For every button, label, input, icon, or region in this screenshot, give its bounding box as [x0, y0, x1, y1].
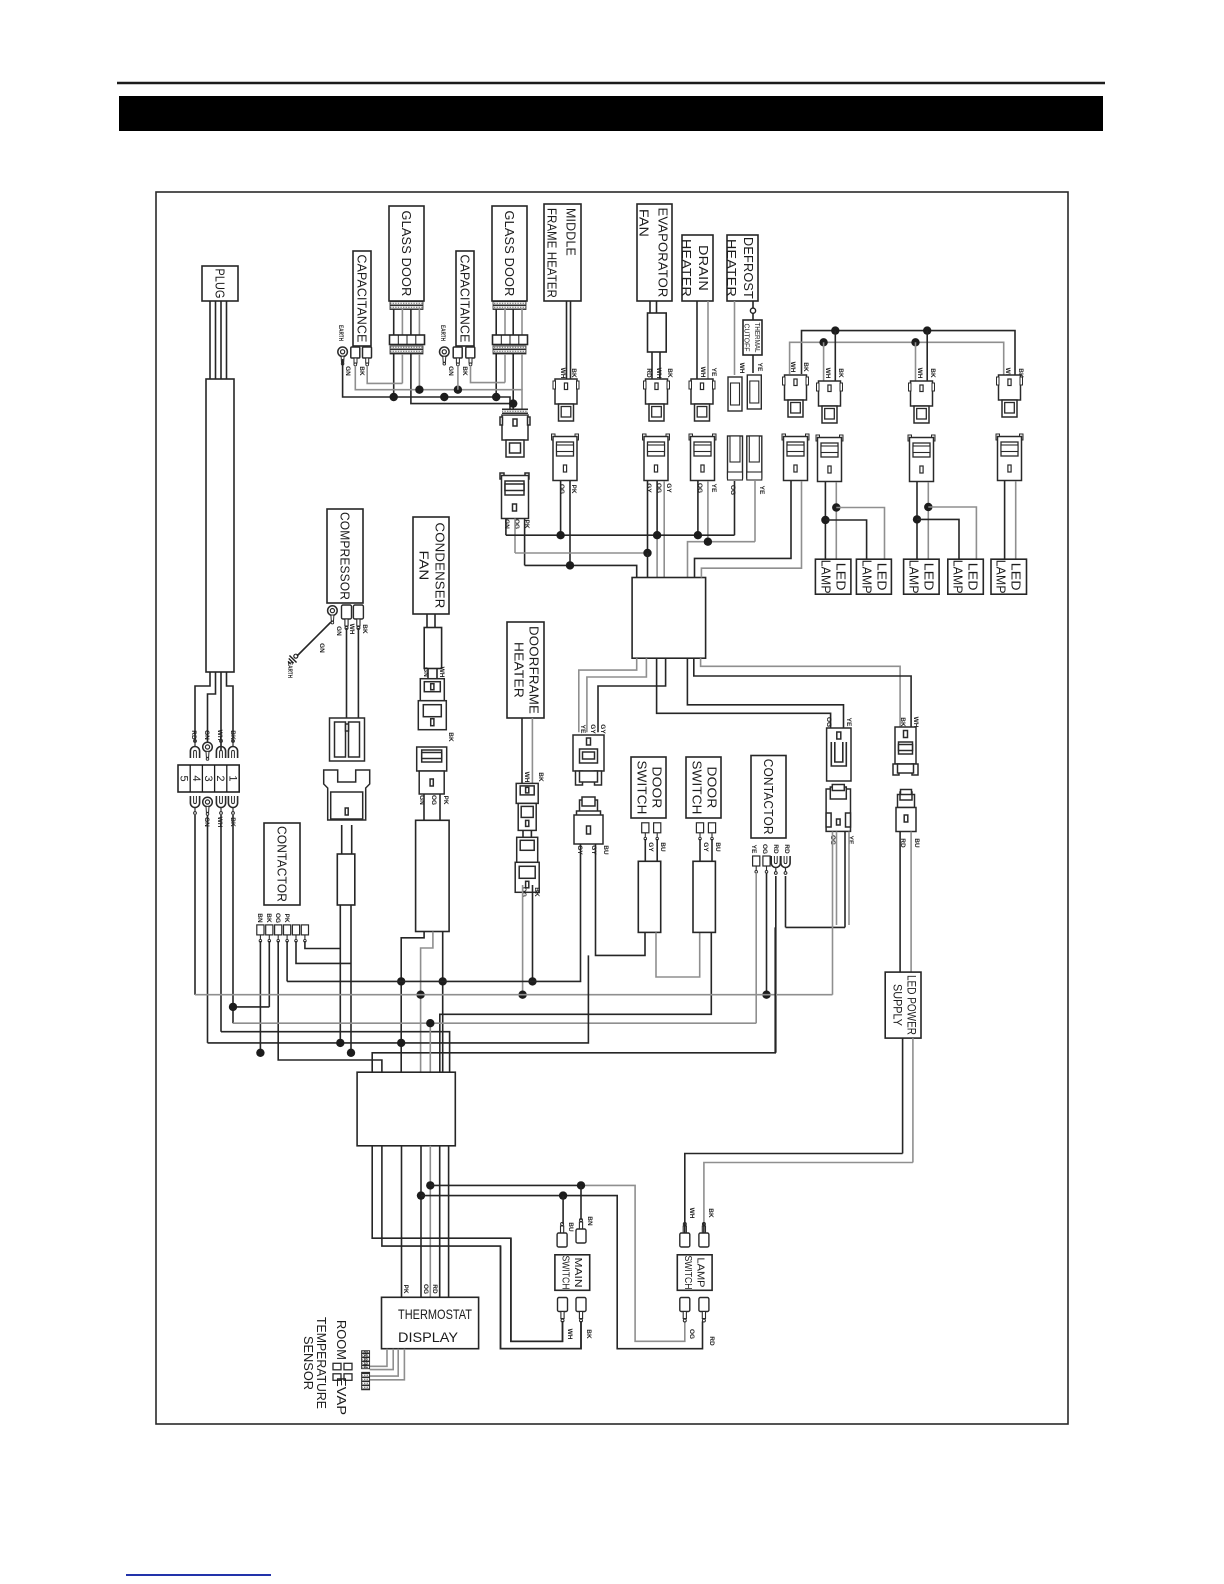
svg-text:1: 1 [226, 775, 238, 781]
sensor tag ROOM [361, 1351, 369, 1369]
connector defrost2 upper [747, 375, 761, 409]
glass door 2 terminal block [493, 335, 528, 345]
wire K2 branch to L2 left [825, 520, 866, 559]
wire mains column 4 [232, 815, 234, 1023]
junction dot c2 OG bus994 [762, 991, 770, 999]
svg-text:BK: BK [707, 1208, 714, 1218]
box LED LAMP 5 [991, 559, 1027, 594]
svg-text:YE: YE [847, 836, 854, 845]
svg-text:BU: BU [659, 842, 666, 852]
terminal strip 5 4 3 2 1 [178, 765, 240, 792]
wire pad6 to compressor w1 [305, 941, 340, 949]
wire mains column 3 [220, 815, 222, 1032]
wire bus y565 [525, 565, 637, 577]
svg-text:WH: WH [789, 362, 796, 373]
bottle terminal cap1 pin2 [363, 347, 372, 366]
wire y1185 to lamp og gray part [581, 1185, 685, 1341]
svg-text:YE: YE [579, 725, 586, 734]
junction dot mfh pk on bus565 [566, 561, 574, 569]
svg-text:GN: GN [335, 626, 342, 636]
wire evap pin2 lower [656, 535, 658, 577]
svg-text:BK: BK [802, 362, 809, 372]
svg-text:CONDENSER: CONDENSER [433, 523, 448, 609]
svg-text:LED POWER: LED POWER [905, 975, 917, 1035]
svg-text:CAPACITANCE: CAPACITANCE [458, 255, 473, 343]
wire box to contactorC bk [701, 658, 901, 727]
wire bus y553 [515, 552, 648, 554]
wire c2 pad YE drop to bus1023 [755, 873, 757, 1023]
svg-text:OG: OG [422, 1284, 429, 1294]
wire box to contactorA og [657, 658, 831, 728]
svg-text:HEATER: HEATER [724, 239, 739, 297]
junction dot mainsw bu [559, 1191, 567, 1199]
wire c2 pad OG drop to bus994 [766, 873, 768, 995]
connector condenser small pair [418, 679, 446, 730]
svg-text:GY: GY [576, 845, 583, 855]
bottle terminal main bottom right [576, 1298, 586, 1323]
svg-text:EVAP: EVAP [334, 1377, 349, 1415]
wire evap pin3 [663, 481, 665, 578]
wire mfh pin1 to bus535 [560, 481, 562, 535]
svg-text:GY: GY [645, 483, 652, 493]
svg-text:OG: OG [520, 887, 527, 897]
wire sensor room a [370, 1349, 387, 1367]
box THERMAL CUTOFF [743, 320, 763, 355]
connector K3 upper [909, 381, 935, 423]
wire contactorB tail horizontal [786, 926, 846, 928]
wire condenser out c [442, 932, 444, 1073]
wire sensor evap b [370, 1349, 405, 1380]
svg-text:OG: OG [696, 483, 703, 493]
wire y1185 to lamp og black part [430, 1184, 581, 1186]
junction dot doorframe bus994 [518, 991, 526, 999]
junction dot out c bus981 [439, 977, 447, 985]
wire bus y1023 [233, 1022, 756, 1024]
connector drain upper [689, 379, 715, 421]
svg-text:GY: GY [599, 724, 606, 734]
contactor1 pad 2 [266, 925, 273, 942]
evap cable ferrule [648, 313, 667, 352]
wire pad4 to bus981 [286, 941, 288, 981]
wire box2 out left b [382, 1146, 581, 1349]
wire bus y541 [688, 542, 756, 578]
svg-text:CAPACITANCE: CAPACITANCE [355, 255, 370, 343]
svg-text:4: 4 [190, 775, 202, 781]
junction dot cap2 pin1 [454, 386, 462, 394]
wire K2 branch to L2 right [836, 508, 884, 560]
svg-text:FRAME HEATER: FRAME HEATER [545, 208, 560, 298]
box DOOR SWITCH 1 [631, 757, 666, 818]
wire led supply down right [912, 1038, 914, 1162]
svg-text:WH: WH [566, 1329, 573, 1340]
wire led supply to lamp switch wh [685, 1154, 903, 1234]
wire glass1 w2 [401, 354, 403, 383]
svg-text:SWITCH: SWITCH [690, 761, 705, 815]
control junction box [632, 578, 706, 659]
wire K3 branch to L4 left [917, 519, 959, 559]
svg-text:PK: PK [283, 913, 290, 922]
fork terminal below strip 3 [228, 796, 237, 814]
svg-text:WH: WH [912, 717, 919, 728]
junction dot bus1006 [229, 1003, 237, 1011]
connector chain upper [573, 735, 604, 785]
wire cap2 pin1 drop [457, 366, 459, 390]
svg-text:LED: LED [1009, 563, 1024, 591]
junction dot glass2 w1 [492, 393, 500, 401]
wire K1 pin1 to box [695, 481, 792, 578]
wire condenser into body [424, 794, 440, 820]
wire lamp sw top stubs [685, 1222, 704, 1233]
wire evap leads [650, 301, 657, 313]
wire box to chain w3 [598, 658, 666, 732]
svg-text:GN: GN [203, 817, 210, 827]
svg-text:WH: WH [559, 368, 566, 379]
box CONTACTOR 2 [751, 756, 786, 839]
fork terminal below strip 1 [190, 796, 199, 814]
svg-text:BK: BK [899, 717, 906, 727]
wire box2 out left a [372, 1146, 562, 1342]
wire harness pin3 to bus565 [524, 519, 526, 566]
wire ds2 pins to body [700, 839, 712, 861]
wire plug leads [210, 301, 227, 379]
svg-text:BK: BK [837, 368, 844, 378]
wire ds2 out right to box2 [440, 932, 712, 1072]
black header banner [119, 96, 1103, 131]
svg-text:CUTOFF: CUTOFF [743, 324, 752, 352]
svg-text:ROOM: ROOM [334, 1320, 349, 1360]
condenser cable ferrule [424, 628, 441, 669]
bottle terminal lamp top left [680, 1223, 690, 1248]
box CONTACTOR 1 [264, 823, 300, 905]
door switch2 body [693, 861, 715, 932]
wire doorframe w1 to bus994 [522, 885, 524, 995]
bottle terminal main top left [557, 1223, 567, 1248]
ring terminal earth 1 [338, 347, 348, 365]
connector compressor upper [330, 718, 365, 761]
svg-text:GLASS DOOR: GLASS DOOR [399, 211, 414, 297]
svg-text:WH: WH [438, 667, 445, 678]
wire defrost lead left [734, 301, 736, 375]
svg-text:LED: LED [834, 563, 849, 591]
wire glass2 w1 [495, 354, 497, 397]
bottle terminal lamp bottom left [680, 1298, 690, 1323]
wire led bus black y330 [802, 331, 1016, 381]
svg-text:WH: WH [348, 624, 355, 635]
wire main bk return [501, 1246, 582, 1349]
wire drain leads [697, 301, 708, 379]
wire bus y981 [287, 980, 580, 982]
svg-text:PLUG: PLUG [213, 269, 228, 299]
junction dot evap on bus535 [653, 531, 661, 539]
wire K4 to L5 left [1004, 481, 1006, 559]
glass door 1 wires to block [394, 309, 420, 335]
connector defrost1 lower [728, 436, 743, 480]
wire K2 feeds [834, 331, 836, 381]
connector defrost1 upper [728, 377, 742, 411]
label hatch above harness connector [502, 409, 528, 415]
connector contactorD [896, 790, 916, 832]
junction dot glass2 w3 [509, 399, 517, 407]
junction dot drain on bus541 [704, 538, 712, 546]
contactor1 pad 4 [284, 925, 291, 942]
svg-text:CONTACTOR: CONTACTOR [761, 759, 776, 835]
svg-text:LED: LED [875, 563, 890, 591]
wire glass1 w3 [411, 354, 513, 404]
svg-text:RD: RD [190, 730, 197, 740]
svg-text:DRAIN: DRAIN [696, 245, 711, 291]
svg-text:YE: YE [750, 845, 757, 854]
svg-text:MIDDLE: MIDDLE [564, 208, 579, 256]
junction dot doorframe bus981 [528, 977, 536, 985]
wire bus y994 [195, 994, 833, 996]
svg-text:GN: GN [344, 366, 351, 376]
wire c2 fork RD2 drop [785, 876, 787, 927]
svg-text:BK: BK [533, 887, 540, 897]
wire chain pinR to ds1 [596, 844, 646, 955]
junction dot out a bus981 [397, 977, 405, 985]
door switch1 pin left [642, 823, 649, 840]
wire bus y535 [506, 534, 735, 536]
wire condenser leads [427, 614, 435, 628]
wire box to contactorA ye [687, 658, 843, 728]
wire K1 pin2 to box [701, 481, 801, 578]
connector K2 lower [816, 435, 843, 482]
connector doorframe lower [515, 837, 539, 892]
junction dot earth2 [440, 393, 448, 401]
junction dot evap gy on bus553 [643, 549, 651, 557]
connector K1 lower [782, 434, 809, 481]
connector contactorA receptacle [827, 728, 851, 781]
connector contactorC [893, 727, 918, 775]
contactor2 fork RD2 [781, 856, 790, 874]
contactor2 pad YE [753, 856, 760, 873]
svg-text:GN: GN [447, 366, 454, 376]
glass door 1 hatch row bottom [390, 346, 423, 354]
junction dot K2 on black bus [831, 326, 839, 334]
svg-text:HEATER: HEATER [679, 239, 694, 297]
junction dot K2 on gray bus [819, 338, 827, 346]
svg-text:SWITCH: SWITCH [560, 1256, 571, 1290]
wire black bus y397 [343, 359, 510, 416]
wire glass1 w4 [418, 354, 420, 390]
svg-text:YE: YE [756, 363, 763, 372]
earth ground symbol [286, 651, 301, 666]
connector K4 lower [996, 434, 1023, 481]
wire defrost lead right [752, 301, 754, 320]
wire mfh leads [567, 301, 571, 379]
control box 2 [357, 1072, 455, 1146]
svg-text:EVAPORATOR: EVAPORATOR [656, 208, 671, 298]
box LED LAMP 2 [856, 559, 891, 594]
box MIDDLE FRAME HEATER [544, 204, 581, 301]
wire c2 fork RD1 drop to bus1053 [775, 876, 777, 1053]
wire gray bus y389.7 [355, 366, 522, 415]
svg-text:WH: WH [655, 368, 662, 379]
wire box to chain w1 [579, 658, 637, 732]
svg-text:YE: YE [710, 484, 717, 493]
svg-text:GY: GY [665, 483, 672, 493]
connector glass-door harness upper [500, 415, 530, 457]
bottle terminal main top right [576, 1219, 586, 1244]
box CAPACITANCE 2 [456, 251, 474, 346]
svg-text:YE: YE [758, 486, 765, 495]
svg-text:BU: BU [714, 842, 721, 852]
svg-text:DOOR: DOOR [705, 767, 720, 809]
svg-text:WH: WH [216, 817, 223, 828]
svg-text:DEFROST: DEFROST [741, 237, 756, 299]
wire thermal cutoff to connector [752, 355, 754, 373]
junction dot K3 branch b [924, 503, 932, 511]
svg-text:RD: RD [772, 844, 779, 854]
svg-text:GLASS DOOR: GLASS DOOR [502, 211, 517, 297]
connector contactorB plug [826, 785, 850, 832]
wire doorframe mid [523, 830, 531, 837]
svg-text:DOOR: DOOR [650, 767, 665, 809]
svg-text:3: 3 [202, 775, 214, 781]
svg-text:LAMP: LAMP [695, 1258, 706, 1288]
svg-text:BK: BK [929, 368, 936, 378]
contactor1 pad 1 [257, 925, 264, 942]
wire K2 to L1 right [835, 482, 837, 559]
wire defrost1 drop to bus535 [734, 481, 736, 535]
svg-text:OG: OG [761, 844, 768, 854]
wire gray link cap2 to glass2 [471, 366, 506, 383]
wire led bus gray y342 [790, 342, 1004, 381]
box LED POWER SUPPLY [885, 972, 921, 1038]
bottle terminal lamp top right [699, 1223, 709, 1248]
svg-text:RD: RD [783, 844, 790, 854]
wire box2 pass 4 [439, 1146, 441, 1298]
svg-text:GY: GY [589, 724, 596, 734]
wire box2 pass og [420, 1146, 422, 1298]
svg-text:DISPLAY: DISPLAY [398, 1329, 459, 1345]
svg-text:LED: LED [922, 563, 937, 591]
junction dot pad1 bus1053 [256, 1049, 264, 1057]
svg-text:LAMP: LAMP [860, 560, 875, 594]
svg-text:FAN: FAN [417, 551, 432, 581]
box MAIN SWITCH [555, 1255, 590, 1291]
bottle terminal main bottom left [558, 1298, 568, 1323]
box LED LAMP 4 [948, 559, 984, 594]
svg-text:BK: BK [361, 624, 368, 634]
box EVAPORATOR FAN [637, 204, 673, 301]
wire mfh pin2 to bus565 [569, 481, 571, 565]
svg-text:BU: BU [913, 838, 920, 848]
connector glass-door harness lower [500, 473, 529, 519]
wire chain pinL to bus981 [580, 844, 582, 981]
junction dot K3 branch a [913, 515, 921, 523]
svg-text:GY: GY [647, 842, 654, 852]
connector mfh lower [552, 434, 579, 481]
wire drain pin1 to bus535 [697, 481, 699, 535]
wire contactorD to led supply left [899, 832, 901, 973]
wire pad5 to compressor w2 [296, 941, 351, 963]
connector evap lower [643, 434, 670, 481]
wire main wh return [511, 1238, 563, 1341]
svg-text:SUPPLY: SUPPLY [891, 984, 903, 1026]
wire defrost2 drop to bus541 [754, 481, 756, 542]
contactor1 pad 3 [275, 925, 282, 942]
junction dot gray430 bus1023 [426, 1019, 434, 1027]
wire led supply down left [902, 1038, 904, 1153]
svg-text:OG: OG [655, 483, 662, 493]
svg-text:BN: BN [256, 913, 263, 923]
svg-text:BK: BK [229, 730, 236, 740]
wire mains column 2 [207, 815, 209, 1043]
wire box2 pass pk [400, 1072, 402, 1297]
box DRAIN HEATER [679, 235, 713, 301]
junction dot glass1 w1 [390, 393, 398, 401]
svg-text:WH: WH [738, 363, 745, 374]
svg-text:MAIN: MAIN [572, 1258, 583, 1288]
svg-text:WH: WH [523, 772, 530, 783]
svg-text:CONTACTOR: CONTACTOR [275, 826, 290, 902]
wire condenser out a [401, 932, 424, 1073]
wire K3 to L3 left [916, 482, 918, 559]
junction dot K2 branch b [832, 503, 840, 511]
wire led supply to lamp switch bk [704, 1163, 913, 1234]
wire pad2 drop [268, 941, 270, 1007]
wire harness pin2 to bus553 [514, 519, 516, 554]
svg-text:EARTH: EARTH [337, 325, 344, 341]
connector K2 upper [817, 381, 843, 423]
wire mains column 1 [194, 815, 196, 995]
svg-text:LED: LED [966, 563, 981, 591]
svg-text:COMPRESSOR: COMPRESSOR [338, 512, 353, 600]
wire K3 branch to L4 right [928, 507, 976, 559]
wire mainsw bn drop [580, 1185, 582, 1220]
connector K1 upper [783, 375, 809, 417]
ring terminal earth 2 [440, 347, 450, 365]
svg-text:LAMP: LAMP [819, 560, 834, 594]
wire pad1 drop [259, 941, 261, 1053]
box THERMOSTAT DISPLAY [382, 1297, 479, 1348]
box GLASS DOOR 2 [492, 206, 527, 301]
svg-text:WH: WH [688, 1208, 695, 1219]
svg-text:GN: GN [318, 643, 325, 653]
svg-text:OG: OG [513, 519, 520, 529]
wire box2 pass rd [429, 1146, 431, 1298]
contactor1 pad 6 [301, 925, 308, 942]
wire evap gy drop to control box [647, 553, 649, 578]
wire mainsw bu drop [562, 1196, 564, 1224]
glass door 2 hatch row bottom [493, 346, 526, 354]
wire contactorD to led supply right [910, 832, 912, 973]
box CAPACITANCE 1 [353, 251, 371, 346]
wire evap leads 2 [652, 352, 660, 379]
wire ds1 out left (joins chain) [644, 931, 646, 933]
svg-text:FAN: FAN [637, 209, 652, 237]
connector K3 lower [908, 435, 935, 482]
svg-text:HEATER: HEATER [512, 642, 527, 698]
blue footer line [126, 1574, 271, 1576]
svg-text:SENSOR: SENSOR [301, 1336, 316, 1390]
wire pad3 to box2 [278, 941, 382, 1072]
svg-text:SWITCH: SWITCH [635, 761, 650, 815]
wire drain pin2 to bus541 [707, 481, 709, 542]
svg-text:BK: BK [358, 366, 365, 376]
wire cord fanout [195, 672, 233, 750]
bottle terminal cap2 pin1 [453, 347, 462, 366]
svg-text:BK: BK [447, 732, 454, 742]
wire compressor w1 [339, 905, 341, 1043]
svg-text:OG: OG [274, 913, 281, 923]
glass door 1 hatch row top [390, 302, 423, 310]
wire condenser out b [421, 932, 433, 1073]
box GLASS DOOR 1 [389, 206, 424, 301]
svg-text:BU: BU [602, 845, 609, 855]
wire ds1 pins to body [645, 839, 657, 861]
